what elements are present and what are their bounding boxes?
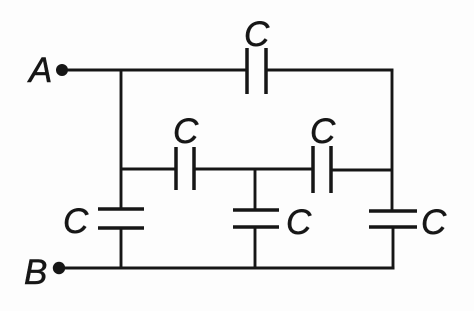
capacitor C6 (bottom right) [369, 203, 447, 242]
svg-text:C: C [173, 112, 199, 151]
svg-text:C: C [244, 15, 270, 54]
node B [24, 253, 65, 292]
wire middle row right segment [331, 169, 392, 172]
wire A to top capacitor [66, 69, 247, 72]
wire right rail upper segment [391, 69, 394, 170]
capacitor C2 (middle left) [173, 112, 199, 190]
wire right rail lower segment [391, 170, 394, 211]
wire left rail [120, 70, 123, 209]
capacitor C1 (top) [244, 15, 270, 94]
wire top capacitor to right rail [266, 69, 393, 72]
wire bottom middle capacitor to bottom rail [254, 227, 257, 269]
svg-text:B: B [24, 253, 47, 292]
capacitor C5 (bottom middle) [233, 203, 312, 242]
node A [27, 51, 68, 90]
wire junction drop middle [254, 169, 257, 210]
wire middle row center segment [194, 168, 313, 171]
svg-text:C: C [286, 203, 312, 242]
wire middle row left segment [121, 168, 176, 171]
svg-text:C: C [310, 112, 336, 151]
svg-text:A: A [27, 51, 52, 90]
capacitor C4 (bottom left) [63, 202, 144, 241]
capacitor C3 (middle right) [310, 112, 336, 193]
svg-text:C: C [421, 203, 447, 242]
svg-text:C: C [63, 202, 89, 241]
wire bottom left capacitor to bottom rail [120, 228, 123, 269]
wire bottom rail [63, 267, 395, 270]
wire bottom right capacitor to bottom rail [392, 227, 395, 269]
